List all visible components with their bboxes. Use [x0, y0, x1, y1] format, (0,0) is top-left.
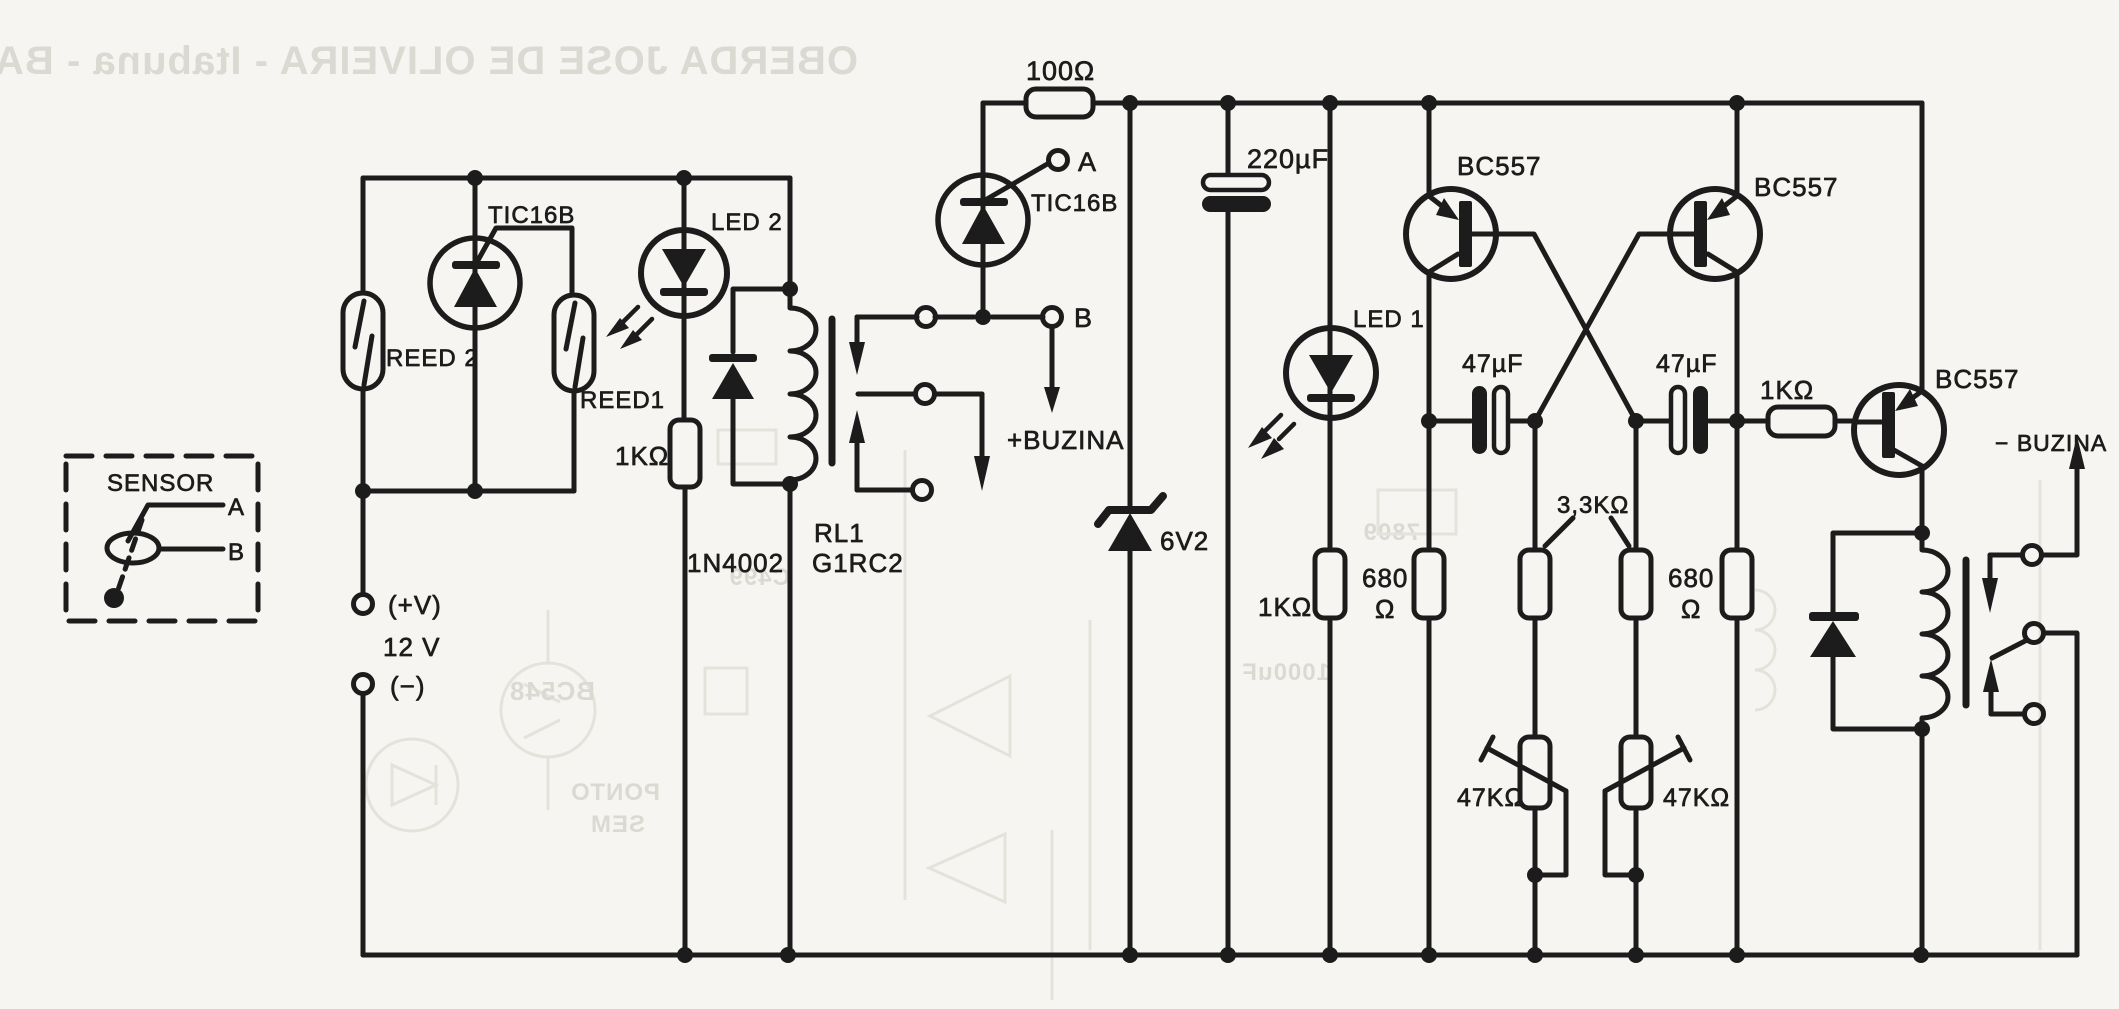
wire top rail corner down to relay	[788, 178, 793, 289]
svg-text:BC557: BC557	[1754, 172, 1839, 202]
svg-text:LED 1: LED 1	[1353, 306, 1425, 333]
svg-text:1KΩ: 1KΩ	[1760, 375, 1814, 405]
wire gate to terminal A	[987, 163, 1049, 199]
wire 3,3K left column	[1533, 421, 1538, 955]
svg-text:47µF: 47µF	[1462, 350, 1523, 378]
node bottom rail junctions	[677, 947, 1929, 963]
resistor 1K below LED2	[670, 420, 700, 487]
relay contact middle fixed line	[858, 392, 982, 397]
freewheel diode branch	[1833, 533, 1922, 729]
wire (+V) drop	[361, 491, 366, 594]
svg-text:BC557: BC557	[1457, 151, 1542, 181]
transistor Q2 BC557: column	[1735, 103, 1740, 955]
relay core bar	[829, 319, 836, 463]
svg-text:680: 680	[1362, 563, 1408, 593]
relay contact moving arm top (down arrow)	[855, 317, 860, 344]
svg-text:BC557: BC557	[1935, 364, 2020, 394]
svg-text:47KΩ: 47KΩ	[1663, 784, 1730, 812]
svg-text:SENSOR: SENSOR	[107, 470, 214, 497]
node junction left rail	[355, 483, 483, 499]
wire TIC16B left gate to REED1	[477, 228, 572, 295]
wire REED2 column	[361, 178, 366, 491]
svg-text:A: A	[1078, 147, 1097, 177]
wire 1N4002 bottom	[733, 399, 790, 484]
svg-text:BC548: BC548	[509, 676, 595, 706]
sensor dashed stem	[118, 520, 142, 590]
svg-text:12 V: 12 V	[383, 632, 441, 662]
transistor Q1 BC557 body	[1406, 189, 1496, 279]
svg-text:+BUZINA: +BUZINA	[1007, 425, 1125, 455]
svg-text:6V2: 6V2	[1160, 526, 1209, 556]
wire Q1 base cross-coupling	[1472, 234, 1636, 421]
resistor 100Ω	[983, 101, 1130, 106]
relay coil RL1	[790, 289, 816, 484]
node relay2 top junction	[1914, 525, 1930, 541]
capacitor 47µF no.1	[1429, 419, 1535, 424]
svg-text:SEM: SEM	[590, 811, 645, 838]
trimmer 47K right	[1621, 737, 1651, 808]
svg-text:Ω: Ω	[1681, 594, 1701, 624]
sensor ellipse	[107, 533, 159, 563]
resistor 680 (Q2)	[1722, 550, 1752, 618]
wire 1K to bottom rail	[683, 487, 688, 955]
svg-text:1KΩ: 1KΩ	[1258, 592, 1312, 622]
wire left lower rail	[363, 489, 574, 494]
wire (-) to bottom rail	[361, 694, 366, 955]
wire Q2 base cross-coupling	[1535, 234, 1694, 421]
node top rail junctions right	[1122, 95, 1745, 111]
svg-text:3,3KΩ: 3,3KΩ	[1557, 492, 1629, 519]
sensor wire B	[159, 547, 223, 552]
node relay2 bottom junction	[1914, 721, 1930, 737]
svg-text:220µF: 220µF	[1247, 144, 1329, 174]
thyristor TIC16B right: wire through	[981, 103, 986, 317]
wire relay2 to bottom rail	[1920, 729, 1925, 955]
svg-text:− BUZINA: − BUZINA	[1995, 430, 2107, 456]
transistor Q2 BC557 body	[1670, 189, 1760, 279]
terminal A	[1049, 151, 1068, 170]
LED1 column wire	[1328, 103, 1333, 955]
thyristor TIC16B right body	[938, 175, 1028, 265]
resistor 680 (Q1)	[1414, 550, 1444, 618]
transistor Q1 BC557: collector/emitter column	[1427, 103, 1432, 955]
wire to diode 1N4002	[733, 289, 790, 352]
wire Q3 collector down	[1920, 466, 1925, 533]
svg-text:47KΩ: 47KΩ	[1457, 784, 1524, 812]
svg-text:B: B	[228, 539, 245, 566]
svg-text:PONTO: PONTO	[570, 779, 660, 806]
relay2 moving arm top (down arrow)	[1988, 555, 1993, 580]
reed switch REED2	[343, 293, 383, 389]
LED D1 emission arrows	[1266, 415, 1294, 439]
svg-text:OBERDA JOSE DE OLIVEIRA - Itab: OBERDA JOSE DE OLIVEIRA - Itabuna - BA	[0, 39, 858, 83]
node top rail junctions	[467, 170, 692, 186]
resistor 1K (LED1)	[1315, 550, 1345, 618]
resistor 1KΩ horizontal	[1737, 419, 1856, 424]
relay2 bottom contact	[1991, 712, 2022, 717]
LED2: wire through	[682, 178, 687, 420]
wire bottom rail	[363, 953, 2077, 958]
LED D2 body	[641, 230, 727, 316]
wire 3,3K right column	[1634, 421, 1639, 955]
svg-text:(−): (−)	[390, 671, 426, 701]
svg-text:B: B	[1074, 303, 1093, 333]
node cap2 junctions	[1628, 413, 1745, 429]
wire +BUZINA arrow	[980, 394, 985, 458]
svg-text:A: A	[228, 494, 245, 521]
capacitor 220µF	[1203, 175, 1269, 190]
svg-text:1N4002: 1N4002	[687, 548, 784, 578]
svg-text:680: 680	[1668, 563, 1714, 593]
node relay top junction	[782, 281, 798, 297]
transistor Q3 BC557: emitter from top rail	[1920, 103, 1925, 391]
terminal B	[1043, 308, 1062, 327]
zener 6V2 column wire	[1128, 103, 1133, 955]
thyristor TIC16B left body	[430, 238, 520, 328]
relay contact bottom fixed line	[857, 488, 912, 493]
svg-text:REED1: REED1	[580, 387, 665, 414]
terminal (+V)	[354, 595, 373, 614]
LED D2 emission arrows	[623, 307, 652, 335]
freewheel diode	[1809, 612, 1859, 657]
node cap1 junctions	[1421, 413, 1543, 429]
relay contact moving arm bottom (up arrow)	[855, 441, 860, 490]
sensor wire A	[128, 505, 223, 541]
svg-text:RL1: RL1	[814, 518, 865, 548]
svg-text:REED 2: REED 2	[386, 345, 479, 372]
svg-text:Ω: Ω	[1375, 594, 1395, 624]
wire REED1 bottom	[572, 391, 577, 491]
svg-text:LED 2: LED 2	[711, 209, 783, 236]
wire relay column to bottom rail	[788, 484, 793, 955]
capacitor 47µF no.2	[1636, 419, 1737, 424]
svg-text:100Ω: 100Ω	[1026, 56, 1095, 86]
trimmer 47K left	[1520, 737, 1550, 808]
terminal (-)	[354, 675, 373, 694]
zener 6V2	[1098, 496, 1163, 524]
node relay bottom junction	[782, 476, 798, 492]
transistor Q3 BC557 body	[1854, 385, 1944, 475]
relay coil 2	[1922, 533, 1948, 729]
capacitor 220µF column wire	[1226, 103, 1231, 955]
relay2 middle contact	[2025, 624, 2044, 643]
svg-text:TIC16B: TIC16B	[1031, 190, 1118, 217]
relay2 moving arm bottom (up arrow)	[1989, 690, 1994, 714]
wire B down arrow	[1050, 327, 1055, 389]
svg-text:G1RC2: G1RC2	[812, 548, 904, 578]
diode 1N4002	[709, 354, 757, 399]
wire top-left rail	[363, 176, 790, 181]
relay2 contact top	[1990, 467, 2077, 555]
svg-text:1000uF: 1000uF	[1241, 659, 1330, 686]
resistor 3,3K right	[1621, 550, 1651, 618]
LED D1 body	[1286, 328, 1376, 418]
wire top rail right	[1130, 101, 1922, 106]
node sensor dot	[104, 588, 124, 608]
relay contact top fixed line	[857, 315, 1043, 320]
resistor 3,3K left	[1520, 550, 1550, 618]
node gate junction B row	[975, 309, 991, 325]
svg-text:TIC16B: TIC16B	[488, 202, 575, 229]
svg-text:47µF: 47µF	[1656, 350, 1717, 378]
relay core bar 2	[1963, 560, 1970, 705]
thyristor TIC16B left: wire through	[473, 178, 478, 491]
sensor box dashed	[66, 456, 258, 621]
svg-text:1KΩ: 1KΩ	[615, 441, 669, 471]
reed switch REED1	[554, 295, 594, 391]
svg-text:(+V): (+V)	[388, 590, 442, 620]
